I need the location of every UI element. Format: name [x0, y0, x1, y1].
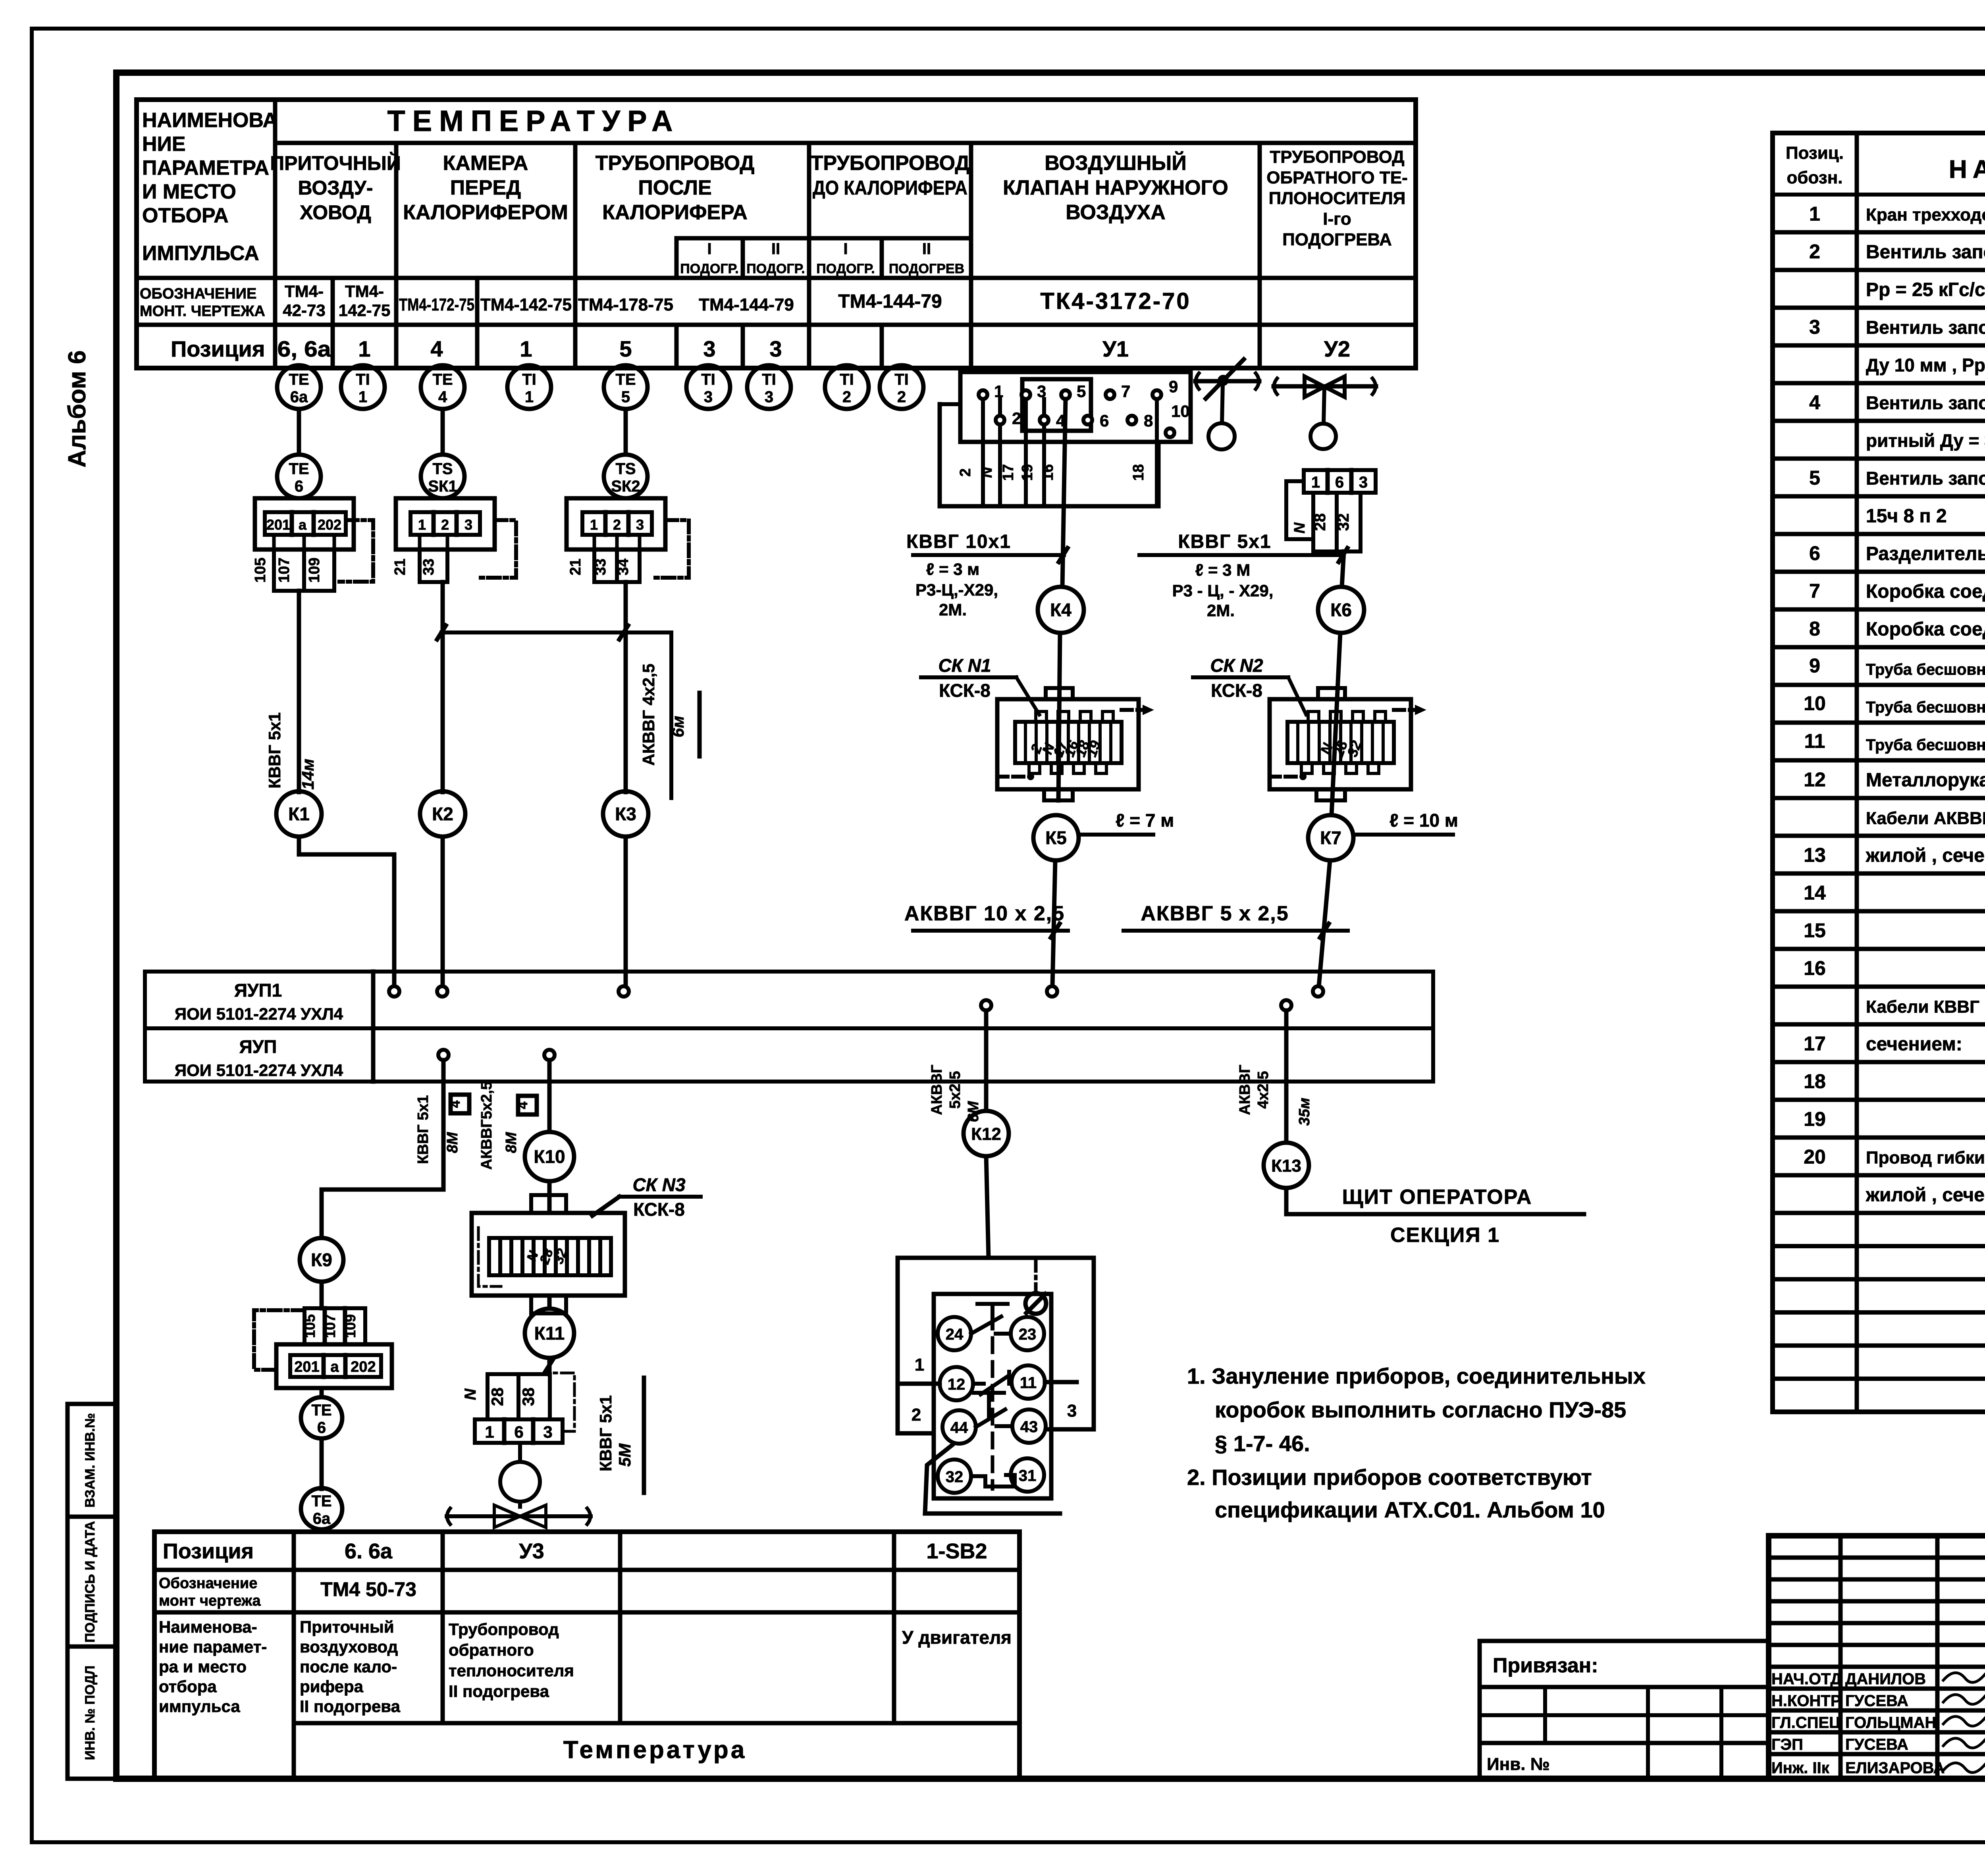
svg-text:2М.: 2М.	[1207, 601, 1235, 620]
svg-text:К3: К3	[615, 804, 636, 824]
svg-text:1: 1	[358, 388, 367, 406]
svg-text:МОНТ. ЧЕРТЕЖА: МОНТ. ЧЕРТЕЖА	[140, 303, 265, 320]
svg-text:11: 11	[1804, 730, 1825, 752]
svg-text:Позиция: Позиция	[163, 1539, 254, 1563]
svg-text:202: 202	[351, 1359, 376, 1375]
svg-text:32: 32	[946, 1468, 964, 1486]
svg-text:3: 3	[704, 388, 713, 406]
svg-text:КАЛОРИФЕРОМ: КАЛОРИФЕРОМ	[403, 201, 568, 224]
svg-text:монт чертежа: монт чертежа	[159, 1593, 261, 1609]
svg-text:38: 38	[519, 1388, 538, 1406]
svg-text:ПОДОГРЕВА: ПОДОГРЕВА	[1282, 230, 1392, 249]
svg-text:КВВГ 5х1: КВВГ 5х1	[1178, 531, 1271, 552]
svg-text:У2: У2	[1324, 336, 1350, 361]
svg-text:16: 16	[1804, 957, 1826, 979]
svg-text:23: 23	[1019, 1326, 1037, 1343]
svg-text:3: 3	[464, 517, 472, 533]
svg-text:Позиция: Позиция	[171, 336, 265, 361]
svg-text:9: 9	[1169, 377, 1178, 396]
svg-text:9: 9	[1809, 655, 1820, 677]
svg-text:ОТБОРА: ОТБОРА	[142, 204, 229, 227]
svg-text:17: 17	[1000, 464, 1017, 481]
svg-text:ТI: ТI	[701, 371, 715, 388]
svg-text:У3: У3	[519, 1539, 544, 1563]
svg-text:КСК-8: КСК-8	[939, 680, 991, 701]
svg-text:21: 21	[392, 559, 409, 575]
svg-text:2: 2	[1809, 241, 1820, 263]
svg-text:ГЛ.СПЕЦ: ГЛ.СПЕЦ	[1771, 1714, 1840, 1731]
svg-text:2. Позиции приборов соответс: 2. Позиции приборов соответствуют	[1187, 1465, 1592, 1490]
svg-text:ПЛОНОСИТЕЛЯ: ПЛОНОСИТЕЛЯ	[1269, 189, 1406, 208]
svg-text:АКВВГ: АКВВГ	[929, 1064, 945, 1115]
svg-text:1: 1	[418, 517, 426, 533]
svg-text:I: I	[707, 240, 711, 258]
svg-text:Труба бесшовная ГОСТ 9941-81: Труба бесшовная ГОСТ 9941-81	[1866, 699, 1985, 716]
svg-text:К9: К9	[311, 1249, 332, 1270]
svg-text:3: 3	[703, 336, 715, 361]
svg-text:19: 19	[1804, 1108, 1826, 1130]
svg-text:Вентиль запорный сильфонный: Вентиль запорный сильфонный вакуумный	[1866, 317, 1985, 338]
svg-text:Р3-Ц,-Х29,: Р3-Ц,-Х29,	[915, 580, 998, 599]
svg-text:2: 2	[912, 1405, 921, 1425]
svg-text:ГОЛЬЦМАН: ГОЛЬЦМАН	[1845, 1714, 1936, 1731]
svg-text:109: 109	[342, 1314, 358, 1338]
svg-text:К6: К6	[1330, 600, 1352, 620]
svg-text:12: 12	[1804, 769, 1826, 791]
svg-text:1: 1	[1809, 203, 1820, 225]
svg-text:ДО КАЛОРИФЕРА: ДО КАЛОРИФЕРА	[813, 177, 967, 199]
svg-text:ℓ = 3 м: ℓ = 3 м	[926, 560, 980, 578]
svg-text:5: 5	[1077, 382, 1086, 401]
svg-text:ТК4-3172-70: ТК4-3172-70	[1040, 288, 1191, 314]
svg-text:НИЕ: НИЕ	[142, 133, 186, 156]
svg-text:У двигателя: У двигателя	[902, 1627, 1012, 1648]
svg-text:СЕКЦИЯ 1: СЕКЦИЯ 1	[1390, 1224, 1500, 1247]
svg-text:ЯУП1: ЯУП1	[234, 980, 282, 1001]
svg-text:ТМ4-: ТМ4-	[345, 282, 384, 301]
svg-text:8М: 8М	[503, 1132, 520, 1153]
svg-text:Кран трехходовой муфтовый 14М1: Кран трехходовой муфтовый 14М1 , Ду-15мм…	[1866, 205, 1985, 225]
svg-text:ГУСЕВА: ГУСЕВА	[1845, 1736, 1908, 1753]
svg-text:II: II	[922, 240, 931, 258]
svg-text:ТI: ТI	[840, 371, 854, 388]
svg-text:АКВВГ: АКВВГ	[1237, 1064, 1253, 1115]
svg-text:ТМ4-142-75: ТМ4-142-75	[480, 295, 572, 314]
svg-text:К2: К2	[432, 804, 453, 824]
svg-text:ВОЗДУХА: ВОЗДУХА	[1066, 201, 1166, 224]
svg-text:Вентиль запорный муфтовый Д: Вентиль запорный муфтовый Ду - 15мм	[1866, 468, 1985, 489]
svg-text:1: 1	[525, 388, 534, 406]
svg-text:1: 1	[485, 1423, 494, 1441]
svg-text:1. Зануление приборов, соеди: 1. Зануление приборов, соединительных	[1187, 1363, 1646, 1388]
svg-text:Позиц.: Позиц.	[1786, 143, 1844, 163]
svg-text:Рр = 25 кГс/см² 15с 13 бк 1: Рр = 25 кГс/см² 15с 13 бк 1	[1866, 280, 1985, 301]
svg-text:Коробка соединительная КСК-: Коробка соединительная КСК-8,	[1866, 581, 1985, 602]
svg-text:ТМ4-178-75: ТМ4-178-75	[578, 295, 673, 314]
svg-text:33: 33	[420, 559, 437, 575]
svg-text:ВЗАМ. ИНВ.№: ВЗАМ. ИНВ.№	[83, 1413, 98, 1508]
svg-text:ТЕ: ТЕ	[432, 371, 453, 388]
svg-text:109: 109	[306, 557, 323, 582]
svg-text:а: а	[299, 517, 307, 533]
svg-text:4: 4	[430, 336, 443, 361]
svg-text:АКВВГ5х2,5: АКВВГ5х2,5	[478, 1082, 495, 1170]
svg-text:Приточный: Приточный	[300, 1618, 394, 1636]
svg-text:28: 28	[488, 1388, 507, 1406]
svg-text:ℓ = 10 м: ℓ = 10 м	[1389, 810, 1458, 831]
svg-text:Н.КОНТР: Н.КОНТР	[1771, 1692, 1841, 1710]
svg-text:ТМ4 50-73: ТМ4 50-73	[320, 1578, 416, 1600]
svg-text:Провод гибкий ГОСТ 20520-80: Провод гибкий ГОСТ 20520-80 ПРГИ с медно…	[1866, 1148, 1985, 1168]
svg-text:2: 2	[957, 468, 974, 476]
svg-text:КСК-8: КСК-8	[633, 1199, 685, 1220]
svg-text:ПОДПИСЬ И ДАТА: ПОДПИСЬ И ДАТА	[83, 1521, 98, 1643]
svg-text:НАЧ.ОТД: НАЧ.ОТД	[1771, 1670, 1842, 1688]
svg-text:ℓ = 3 М: ℓ = 3 М	[1195, 561, 1250, 579]
svg-text:ГУСЕВА: ГУСЕВА	[1845, 1692, 1908, 1710]
svg-text:жилой , сечением : 4 х 25 кв: жилой , сечением : 4 х 25 кв.мм ,	[1866, 845, 1985, 866]
svg-text:ПЕРЕД: ПЕРЕД	[450, 176, 521, 199]
svg-text:2: 2	[897, 388, 906, 406]
svg-text:201: 201	[266, 517, 290, 533]
svg-text:5: 5	[621, 388, 630, 406]
svg-text:ТЕ: ТЕ	[311, 1402, 331, 1419]
svg-text:ТЕМПЕРАТУРА: ТЕМПЕРАТУРА	[387, 104, 680, 137]
svg-text:ИНВ. № ПОДЛ: ИНВ. № ПОДЛ	[83, 1666, 98, 1760]
svg-text:ЯОИ 5101-2274 УХЛ4: ЯОИ 5101-2274 УХЛ4	[175, 1005, 343, 1023]
svg-text:КАМЕРА: КАМЕРА	[443, 152, 528, 175]
svg-text:К7: К7	[1320, 827, 1341, 848]
svg-text:импульса: импульса	[159, 1697, 240, 1716]
svg-text:отбора: отбора	[159, 1677, 217, 1696]
svg-text:2: 2	[842, 388, 851, 406]
svg-text:21: 21	[567, 559, 584, 575]
svg-text:Р3 - Ц, - Х29,: Р3 - Ц, - Х29,	[1172, 581, 1274, 600]
svg-text:1: 1	[358, 336, 370, 361]
svg-text:5М: 5М	[615, 1443, 634, 1467]
svg-text:20: 20	[1804, 1146, 1826, 1168]
svg-text:1-SB2: 1-SB2	[926, 1539, 987, 1563]
svg-text:14: 14	[1804, 882, 1826, 904]
svg-text:Разделитель мембранный РМ 53: Разделитель мембранный РМ 5319	[1866, 544, 1985, 565]
svg-text:Обозначение: Обозначение	[159, 1575, 257, 1592]
svg-text:17: 17	[1804, 1033, 1826, 1055]
svg-text:II подогрева: II подогрева	[449, 1682, 549, 1701]
svg-text:ТS: ТS	[432, 460, 453, 478]
svg-text:2: 2	[441, 517, 449, 533]
svg-text:ℓ = 7 м: ℓ = 7 м	[1116, 810, 1174, 831]
svg-text:СК N3: СК N3	[632, 1174, 685, 1195]
svg-text:ТS: ТS	[615, 460, 636, 478]
svg-text:5х2,5: 5х2,5	[947, 1071, 964, 1109]
svg-text:ТРУБОПРОВОД: ТРУБОПРОВОД	[811, 152, 970, 175]
svg-text:18: 18	[1130, 464, 1147, 481]
svg-text:5: 5	[1809, 467, 1820, 489]
svg-text:теплоносителя: теплоносителя	[449, 1661, 574, 1680]
svg-text:4: 4	[515, 1101, 530, 1109]
svg-text:6а: 6а	[290, 388, 308, 406]
svg-text:N: N	[1291, 522, 1308, 534]
svg-text:7: 7	[1121, 382, 1130, 401]
svg-text:НАИМЕНОВАНИЕ: НАИМЕНОВАНИЕ	[1949, 155, 1985, 183]
svg-text:6: 6	[1335, 474, 1344, 491]
svg-text:8: 8	[1144, 411, 1153, 430]
svg-text:Привязан:: Привязан:	[1493, 1654, 1598, 1677]
svg-text:Температура: Температура	[563, 1736, 747, 1764]
svg-text:105: 105	[252, 557, 269, 582]
svg-text:К11: К11	[534, 1323, 565, 1344]
svg-text:1: 1	[590, 517, 598, 533]
svg-text:У1: У1	[1102, 336, 1129, 361]
svg-text:ра и место: ра и место	[159, 1657, 247, 1676]
svg-text:1: 1	[1311, 474, 1320, 491]
svg-text:24: 24	[946, 1326, 964, 1343]
svg-text:ВОЗДУ-: ВОЗДУ-	[298, 177, 373, 199]
svg-text:жилой , сечением 1 кв. мм: жилой , сечением 1 кв. мм .	[1866, 1185, 1985, 1206]
svg-text:Ду 10 мм , Рр = 1 кГс/см² ,: Ду 10 мм , Рр = 1 кГс/см² , 15Б50р - 3м	[1866, 355, 1985, 376]
svg-text:6а: 6а	[313, 1510, 331, 1527]
svg-text:КВВГ 5х1: КВВГ 5х1	[415, 1095, 432, 1164]
svg-text:Инв. №: Инв. №	[1487, 1755, 1550, 1774]
svg-text:4: 4	[448, 1100, 463, 1108]
svg-text:ГЭП: ГЭП	[1771, 1736, 1803, 1753]
svg-text:после кало-: после кало-	[300, 1657, 397, 1676]
svg-text:31: 31	[1019, 1467, 1037, 1485]
svg-text:13: 13	[1804, 844, 1826, 866]
svg-text:ВОЗДУШНЫЙ: ВОЗДУШНЫЙ	[1045, 151, 1186, 175]
svg-text:Коробка соединительная КСК-: Коробка соединительная КСК-16	[1866, 619, 1985, 640]
svg-text:ХОВОД: ХОВОД	[300, 201, 371, 224]
svg-text:ТМ4-144-79: ТМ4-144-79	[699, 295, 794, 314]
svg-text:42-73: 42-73	[283, 301, 325, 320]
svg-text:11: 11	[1020, 1374, 1037, 1392]
svg-text:К1: К1	[288, 804, 310, 824]
svg-text:АКВВГ 5 х 2,5: АКВВГ 5 х 2,5	[1141, 902, 1289, 925]
svg-text:3: 3	[636, 517, 644, 533]
svg-text:N: N	[462, 1388, 479, 1400]
svg-text:ЕЛИЗАРОВА: ЕЛИЗАРОВА	[1845, 1759, 1945, 1777]
svg-text:ПОДОГР.: ПОДОГР.	[680, 261, 738, 276]
svg-text:II: II	[771, 240, 780, 258]
svg-text:АКВВГ 4х2,5: АКВВГ 4х2,5	[639, 663, 658, 765]
svg-text:ПОДОГР.: ПОДОГР.	[746, 261, 805, 276]
svg-text:1: 1	[994, 382, 1003, 401]
svg-text:Кабели КВВГ ГОСТ 1508-78Е с: Кабели КВВГ ГОСТ 1508-78Е с медной жилой	[1866, 997, 1985, 1017]
svg-text:16: 16	[1040, 464, 1056, 481]
svg-text:ТМ4-: ТМ4-	[285, 282, 324, 301]
svg-text:2: 2	[1012, 409, 1021, 428]
svg-text:спецификации АТХ.С01. Альбом: спецификации АТХ.С01. Альбом 10	[1215, 1497, 1605, 1522]
svg-text:I: I	[843, 240, 848, 258]
svg-text:коробок выполнить согласно: коробок выполнить согласно ПУЭ-85	[1215, 1397, 1626, 1422]
svg-text:ТЕ: ТЕ	[289, 371, 309, 388]
svg-text:КАЛОРИФЕРА: КАЛОРИФЕРА	[602, 201, 748, 224]
svg-text:ТМ4-144-79: ТМ4-144-79	[838, 291, 942, 312]
svg-text:СК N2: СК N2	[1210, 655, 1263, 676]
svg-text:ТЕ: ТЕ	[311, 1492, 331, 1510]
svg-text:6, 6а: 6, 6а	[278, 336, 331, 361]
svg-text:10: 10	[1804, 692, 1826, 715]
svg-text:ЯУП: ЯУП	[239, 1036, 277, 1057]
svg-text:ЩИТ ОПЕРАТОРА: ЩИТ ОПЕРАТОРА	[1342, 1186, 1532, 1209]
svg-text:ПОДОГР.: ПОДОГР.	[816, 261, 875, 276]
svg-text:КЛАПАН НАРУЖНОГО: КЛАПАН НАРУЖНОГО	[1003, 176, 1228, 199]
svg-text:3: 3	[1359, 474, 1368, 491]
svg-text:6: 6	[317, 1419, 326, 1436]
svg-text:34: 34	[615, 559, 632, 575]
svg-text:К5: К5	[1045, 827, 1067, 848]
svg-text:8: 8	[1809, 618, 1820, 640]
svg-text:Альбом 6: Альбом 6	[64, 350, 91, 467]
svg-text:Металлорукав РЗ-Ц,- Х29,: Металлорукав РЗ-Ц,- Х29,	[1866, 770, 1985, 791]
svg-text:Кабели АКВВГ ГОСТ 1508-78Е с: Кабели АКВВГ ГОСТ 1508-78Е с алюминиевой	[1866, 809, 1985, 828]
svg-text:ТI: ТI	[356, 371, 370, 388]
svg-text:АКВВГ 10 х 2,5: АКВВГ 10 х 2,5	[904, 902, 1065, 925]
svg-text:1: 1	[520, 336, 532, 361]
svg-text:НАИМЕНОВА: НАИМЕНОВА	[142, 109, 278, 132]
svg-text:19: 19	[1019, 464, 1036, 481]
svg-text:6. 6а: 6. 6а	[345, 1539, 393, 1563]
svg-text:5: 5	[619, 336, 632, 361]
svg-text:обозн.: обозн.	[1786, 168, 1842, 187]
svg-text:43: 43	[1020, 1418, 1038, 1436]
svg-text:ритный Ду = 3 мм , Ру = 16: ритный Ду = 3 мм , Ру = 16 кГс/см² , 3В-…	[1866, 430, 1985, 451]
svg-text:Труба бесшовная: Труба бесшовная	[1866, 661, 1985, 679]
svg-text:И МЕСТО: И МЕСТО	[142, 180, 236, 203]
svg-text:44: 44	[950, 1419, 968, 1436]
svg-text:ОБОЗНАЧЕНИЕ: ОБОЗНАЧЕНИЕ	[140, 285, 256, 302]
svg-text:105: 105	[302, 1314, 318, 1338]
svg-text:202: 202	[318, 517, 341, 533]
svg-text:6М: 6М	[965, 1101, 982, 1122]
svg-text:К4: К4	[1050, 600, 1072, 620]
svg-text:Трубопровод: Трубопровод	[449, 1620, 559, 1639]
svg-text:II подогрева: II подогрева	[300, 1697, 401, 1716]
svg-text:2М.: 2М.	[939, 600, 967, 619]
svg-text:ние парамет-: ние парамет-	[159, 1637, 267, 1656]
svg-text:ТЕ: ТЕ	[289, 460, 309, 478]
svg-text:ТЕ: ТЕ	[615, 371, 636, 388]
svg-text:6: 6	[514, 1423, 523, 1441]
svg-text:ТМ4-172-75: ТМ4-172-75	[399, 295, 474, 314]
svg-text:6: 6	[1100, 411, 1109, 430]
svg-text:SК2: SК2	[611, 478, 640, 495]
svg-text:ОБРАТНОГО ТЕ-: ОБРАТНОГО ТЕ-	[1266, 168, 1407, 187]
svg-text:32: 32	[1335, 513, 1352, 531]
svg-text:КСК-8: КСК-8	[1211, 680, 1262, 701]
svg-text:Наименова-: Наименова-	[159, 1618, 257, 1636]
svg-text:ЯОИ 5101-2274 УХЛ4: ЯОИ 5101-2274 УХЛ4	[175, 1061, 343, 1080]
svg-text:КВВГ 5х1: КВВГ 5х1	[265, 712, 284, 789]
svg-text:10: 10	[1171, 402, 1190, 420]
svg-text:ПРИТОЧНЫЙ: ПРИТОЧНЫЙ	[270, 152, 401, 174]
svg-text:ИМПУЛЬСА: ИМПУЛЬСА	[142, 242, 259, 265]
svg-text:4х2,5: 4х2,5	[1255, 1071, 1272, 1109]
svg-text:SК1: SК1	[428, 478, 457, 495]
svg-text:ПАРАМЕТРА: ПАРАМЕТРА	[142, 156, 269, 179]
svg-text:ПОСЛЕ: ПОСЛЕ	[638, 176, 711, 199]
svg-text:4: 4	[1809, 391, 1820, 414]
svg-text:6: 6	[295, 478, 303, 495]
svg-text:Вентиль запорный муфтовый М: Вентиль запорный муфтовый МАЛОГАБА-	[1866, 393, 1985, 413]
svg-text:ТРУБОПРОВОД: ТРУБОПРОВОД	[1270, 147, 1404, 167]
svg-text:35м: 35м	[1296, 1098, 1313, 1126]
svg-text:N: N	[979, 467, 995, 478]
svg-text:сечением:: сечением:	[1866, 1034, 1962, 1055]
svg-text:28: 28	[1311, 513, 1329, 531]
svg-text:15ч 8 п 2: 15ч 8 п 2	[1866, 506, 1947, 527]
svg-text:К10: К10	[534, 1146, 565, 1167]
svg-text:3: 3	[769, 336, 782, 361]
svg-text:СК N1: СК N1	[938, 655, 991, 676]
svg-text:3: 3	[1037, 382, 1046, 401]
svg-text:а: а	[330, 1359, 339, 1375]
svg-text:33: 33	[592, 559, 609, 575]
svg-text:3: 3	[543, 1423, 552, 1441]
svg-text:4: 4	[438, 388, 447, 406]
svg-text:Труба бесшовная: Труба бесшовная	[1866, 737, 1985, 754]
svg-text:К13: К13	[1271, 1156, 1301, 1176]
svg-text:142-75: 142-75	[339, 301, 391, 320]
svg-text:КВВГ 5х1: КВВГ 5х1	[596, 1395, 615, 1471]
svg-text:Инж. IIк: Инж. IIк	[1771, 1759, 1830, 1777]
svg-text:ПОДОГРЕВ: ПОДОГРЕВ	[889, 261, 964, 276]
svg-text:15: 15	[1804, 920, 1826, 942]
svg-text:14м: 14м	[299, 759, 317, 790]
svg-text:ТI: ТI	[522, 371, 536, 388]
svg-text:8М: 8М	[444, 1132, 461, 1153]
svg-text:3: 3	[1809, 316, 1820, 338]
svg-text:6: 6	[1809, 542, 1820, 565]
svg-text:ТI: ТI	[894, 371, 909, 388]
svg-text:2: 2	[613, 517, 621, 533]
svg-text:7: 7	[1809, 580, 1820, 602]
svg-text:Вентиль запорный муфтовый Ду: Вентиль запорный муфтовый Ду 6 мм	[1866, 242, 1985, 263]
svg-text:воздуховод: воздуховод	[300, 1637, 398, 1656]
svg-text:КВВГ 10х1: КВВГ 10х1	[906, 531, 1011, 552]
svg-text:3: 3	[1067, 1401, 1077, 1421]
svg-text:обратного: обратного	[449, 1641, 534, 1659]
svg-text:§ 1-7- 46.: § 1-7- 46.	[1215, 1431, 1310, 1456]
svg-text:107: 107	[276, 557, 293, 582]
svg-text:12: 12	[948, 1376, 966, 1393]
svg-text:К12: К12	[971, 1124, 1001, 1144]
svg-text:107: 107	[322, 1314, 338, 1338]
svg-text:201: 201	[294, 1359, 319, 1375]
svg-text:ДАНИЛОВ: ДАНИЛОВ	[1845, 1670, 1926, 1688]
svg-text:3: 3	[765, 388, 773, 406]
svg-text:ТI: ТI	[762, 371, 776, 388]
svg-text:6м: 6м	[669, 716, 687, 737]
svg-text:1: 1	[915, 1355, 924, 1375]
svg-text:рифера: рифера	[300, 1677, 364, 1696]
svg-text:18: 18	[1804, 1070, 1826, 1093]
svg-text:ТРУБОПРОВОД: ТРУБОПРОВОД	[595, 152, 755, 175]
svg-text:I-го: I-го	[1323, 209, 1351, 229]
